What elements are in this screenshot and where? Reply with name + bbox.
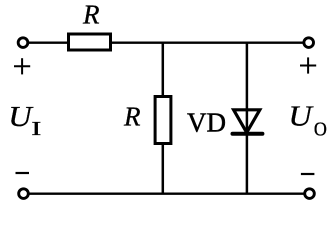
svg-text:U: U bbox=[8, 100, 33, 132]
svg-text:I: I bbox=[31, 118, 41, 140]
svg-text:VD: VD bbox=[187, 108, 226, 138]
svg-text:R: R bbox=[123, 102, 141, 132]
svg-text:O: O bbox=[314, 118, 327, 140]
svg-text:R: R bbox=[82, 0, 100, 30]
svg-text:U: U bbox=[288, 100, 313, 132]
